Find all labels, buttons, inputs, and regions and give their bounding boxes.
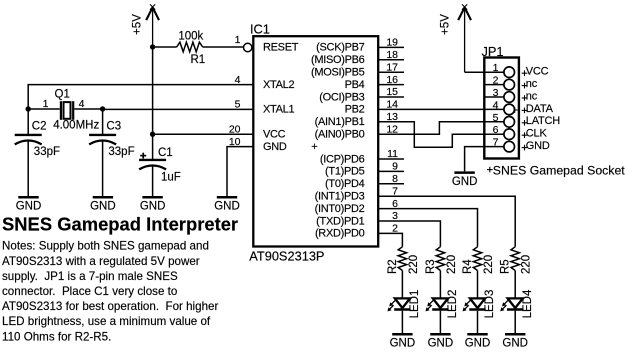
wire IC1 PB2 (pin 14) to JP1 pin 4 DATA bbox=[378, 108, 504, 110]
IC1 pin 6 (INT0)PD2 label bbox=[315, 198, 399, 215]
capacitor C3 33pF bbox=[89, 109, 135, 158]
svg-text:connector. Place C1 very clos: connector. Place C1 very close to bbox=[2, 285, 177, 298]
ground under LED4 bbox=[502, 334, 528, 349]
wire +5V to JP1 pin 1 VCC bbox=[465, 71, 504, 73]
svg-text:33pF: 33pF bbox=[108, 146, 134, 158]
svg-text:Notes: Supply both SNES gamepa: Notes: Supply both SNES gamepad and bbox=[2, 240, 209, 253]
ground under C2 bbox=[16, 197, 42, 212]
resistor R2 220 bbox=[387, 247, 420, 274]
IC1 pin 1 RESET label bbox=[235, 34, 299, 54]
crystal Q1 4.00MHz bbox=[43, 88, 100, 131]
svg-text:VCC: VCC bbox=[263, 129, 286, 141]
svg-text:(MISO)PB6: (MISO)PB6 bbox=[311, 54, 365, 66]
IC1 pin 15 (OCI)PB3 label bbox=[319, 86, 398, 103]
wire VCC node down to C1 bbox=[152, 134, 154, 159]
LED LED3 bbox=[463, 290, 497, 319]
svg-text:GND: GND bbox=[452, 176, 478, 188]
svg-text:GND: GND bbox=[214, 201, 240, 213]
svg-text:(T0)PD4: (T0)PD4 bbox=[325, 178, 365, 190]
JP1 note: SNES Gamepad Socket bbox=[487, 163, 625, 177]
svg-text:(AIN0)PB0: (AIN0)PB0 bbox=[315, 129, 365, 141]
JP1 pin 5 (LATCH) bbox=[493, 112, 561, 127]
svg-text:(RXD)PD0: (RXD)PD0 bbox=[315, 228, 365, 240]
IC1 pin 19 stub bbox=[378, 46, 404, 48]
wire IC1 PB0 (pin 12) to JP1 pin 5 LATCH bbox=[378, 122, 504, 134]
JP1 pin 4 connection cross bbox=[512, 109, 518, 111]
svg-text:4: 4 bbox=[235, 74, 241, 86]
ground under LED1 bbox=[390, 334, 416, 349]
svg-text:(T1)PD5: (T1)PD5 bbox=[325, 166, 365, 178]
svg-text:(INT0)PD2: (INT0)PD2 bbox=[315, 203, 365, 215]
IC1 pin 9 (T1)PD5 label bbox=[325, 161, 398, 178]
svg-text:7: 7 bbox=[493, 137, 499, 149]
svg-text:LED3: LED3 bbox=[484, 290, 496, 319]
svg-text:1uF: 1uF bbox=[161, 171, 181, 183]
wire LED3 to ground bbox=[477, 311, 479, 333]
svg-text:(SCK)PB7: (SCK)PB7 bbox=[316, 42, 365, 54]
svg-text:(MOSI)PB5: (MOSI)PB5 bbox=[311, 67, 365, 79]
svg-text:R5: R5 bbox=[500, 259, 512, 274]
svg-text:R4: R4 bbox=[462, 259, 474, 274]
capacitor C2 33pF bbox=[15, 109, 60, 158]
svg-text:nc: nc bbox=[526, 78, 538, 90]
svg-text:220: 220 bbox=[521, 255, 533, 274]
svg-text:1: 1 bbox=[493, 62, 499, 74]
resistor R4 220 bbox=[462, 247, 495, 274]
svg-text:R2: R2 bbox=[387, 259, 399, 274]
ground under LED2 bbox=[428, 334, 454, 349]
svg-text:AT90S2313P: AT90S2313P bbox=[249, 248, 324, 263]
IC1 pin 8 stub bbox=[378, 183, 404, 185]
svg-text:(ICP)PD6: (ICP)PD6 bbox=[320, 153, 365, 165]
IC1 pin 18 (MISO)PB6 label bbox=[311, 49, 398, 66]
svg-text:(OCI)PB3: (OCI)PB3 bbox=[319, 91, 364, 103]
IC1 RESET inversion bubble (pin 1) bbox=[244, 43, 252, 51]
IC1 pin 4 XTAL2 label bbox=[235, 74, 295, 91]
JP1 pin 7 (GND) bbox=[493, 137, 550, 152]
svg-text:4: 4 bbox=[79, 98, 85, 110]
IC1 pin 8 (T0)PD4 label bbox=[325, 173, 398, 190]
wire VCC node to IC1 pin 20 bbox=[153, 133, 254, 135]
JP1 pin 2 (nc) bbox=[493, 75, 538, 90]
IC1 pin 2 (RXD)PD0 label bbox=[315, 223, 398, 240]
svg-text:VCC: VCC bbox=[526, 66, 549, 78]
wire R2 to LED1 bbox=[401, 271, 403, 298]
svg-text:AT90S2313 with a regulated 5V: AT90S2313 with a regulated 5V power bbox=[2, 255, 200, 268]
wire R1 to IC1 RESET bubble bbox=[203, 46, 244, 48]
wire node A to crystal Q1 bbox=[28, 108, 60, 110]
wire LED1 to ground bbox=[401, 311, 403, 333]
IC1 pin 5 XTAL1 label bbox=[235, 99, 295, 116]
svg-text:LED1: LED1 bbox=[409, 290, 421, 319]
svg-text:Q1: Q1 bbox=[55, 88, 70, 100]
svg-text:GND: GND bbox=[390, 338, 416, 350]
svg-text:GND: GND bbox=[140, 201, 166, 213]
IC1 pin 18 stub bbox=[378, 59, 404, 61]
svg-text:CLK: CLK bbox=[526, 128, 548, 140]
LED LED4 bbox=[500, 289, 534, 318]
wire IC1 pin 7 to resistor column x=515.2 bbox=[378, 196, 515, 247]
svg-text:GND: GND bbox=[428, 338, 454, 350]
svg-text:PB2: PB2 bbox=[345, 104, 365, 116]
wire +5V to resistor R1 bbox=[153, 46, 177, 48]
svg-text:6: 6 bbox=[493, 124, 499, 136]
IC1 pin 13 (AIN1)PB1 label bbox=[315, 111, 399, 128]
svg-text:C3: C3 bbox=[106, 120, 121, 132]
svg-text:JP1: JP1 bbox=[482, 44, 504, 59]
LED LED1 bbox=[387, 290, 421, 319]
svg-text:4: 4 bbox=[493, 99, 499, 111]
svg-text:supply. JP1 is a 7-pin male S: supply. JP1 is a 7-pin male SNES bbox=[2, 270, 178, 283]
svg-text:GND: GND bbox=[465, 338, 491, 350]
JP1 pin 1 (VCC) bbox=[493, 62, 549, 77]
IC1 pin 19 (SCK)PB7 label bbox=[316, 37, 398, 54]
power flag +5V (JP1) bbox=[439, 4, 471, 72]
junction +5V rail / VCC / C1 bbox=[150, 132, 155, 137]
JP1 pin 4 (DATA) bbox=[493, 99, 554, 114]
svg-text:C2: C2 bbox=[32, 120, 47, 132]
IC1 pin 11 (ICP)PD6 label bbox=[320, 148, 398, 165]
IC1 pin 11 stub bbox=[378, 158, 404, 160]
svg-text:nc: nc bbox=[526, 90, 538, 102]
IC1 pin 15 stub bbox=[378, 96, 404, 98]
svg-text:C1: C1 bbox=[158, 147, 173, 159]
svg-text:GND: GND bbox=[263, 141, 287, 153]
JP1 pin 6 (CLK) bbox=[493, 124, 548, 139]
svg-text:GND: GND bbox=[526, 140, 550, 152]
svg-text:220: 220 bbox=[483, 255, 495, 274]
svg-text:220: 220 bbox=[446, 255, 458, 274]
svg-text:R3: R3 bbox=[425, 259, 437, 274]
svg-text:33pF: 33pF bbox=[34, 146, 60, 158]
ground under LED3 bbox=[465, 334, 491, 349]
LED LED2 bbox=[425, 290, 459, 319]
svg-text:+5V: +5V bbox=[439, 14, 452, 35]
IC1 pin 14 PB2 label bbox=[345, 99, 399, 116]
resistor R3 220 bbox=[425, 247, 458, 274]
svg-text:LED2: LED2 bbox=[447, 290, 459, 319]
svg-text:GND: GND bbox=[16, 201, 42, 213]
JP1 pin 2 internal stub bbox=[484, 84, 504, 86]
connector JP1 box bbox=[484, 58, 519, 159]
svg-text:4.00MHz: 4.00MHz bbox=[53, 120, 99, 132]
svg-text:20: 20 bbox=[229, 123, 241, 135]
IC1 pin 3 (TXD)PD1 label bbox=[316, 210, 398, 227]
svg-text:SNES Gamepad Interpreter: SNES Gamepad Interpreter bbox=[2, 214, 238, 235]
svg-text:R1: R1 bbox=[190, 54, 205, 66]
JP1 pin 3 (nc) bbox=[493, 87, 538, 102]
ground under C1 bbox=[140, 197, 166, 212]
svg-text:IC1: IC1 bbox=[250, 21, 270, 36]
svg-text:+: + bbox=[311, 141, 317, 153]
wire C1 to ground bbox=[152, 166, 154, 197]
wire C3 to ground bbox=[102, 141, 104, 197]
wire R3 to LED2 bbox=[439, 271, 441, 298]
ground under JP1 pin 7 bbox=[452, 173, 478, 188]
svg-text:LED4: LED4 bbox=[522, 289, 534, 318]
svg-text:100k: 100k bbox=[178, 31, 203, 43]
junction node A (XTAL2/C2/Q1) bbox=[26, 106, 31, 111]
microcontroller IC1 AT90S2313P box bbox=[253, 36, 378, 246]
wire LED4 to ground bbox=[514, 311, 516, 333]
resistor R5 220 bbox=[500, 247, 533, 274]
IC1 pin 16 PB4 label bbox=[345, 74, 399, 91]
svg-text:+5V: +5V bbox=[131, 14, 144, 35]
svg-text:RESET: RESET bbox=[263, 42, 299, 54]
svg-text:LED brightness, use a minimum: LED brightness, use a minimum value of bbox=[2, 315, 211, 328]
svg-text:(TXD)PD1: (TXD)PD1 bbox=[316, 215, 365, 227]
wire +5V rail down to VCC node bbox=[152, 47, 154, 134]
svg-text:(AIN1)PB1: (AIN1)PB1 bbox=[315, 116, 365, 128]
wire IC1 pin 6 to resistor column x=477.5 bbox=[378, 209, 477, 247]
resistor R1 100k bbox=[177, 31, 205, 66]
svg-text:220: 220 bbox=[408, 255, 420, 274]
svg-text:SNES Gamepad Socket: SNES Gamepad Socket bbox=[493, 163, 625, 177]
svg-text:PB4: PB4 bbox=[345, 79, 365, 91]
ground under C3 bbox=[90, 197, 116, 212]
IC1 pin 12 (AIN0)PB0 label bbox=[315, 123, 399, 140]
wire R5 to LED4 bbox=[514, 271, 516, 298]
junction node B (XTAL1/C3/Q1) bbox=[100, 106, 105, 111]
svg-text:(INT1)PD3: (INT1)PD3 bbox=[315, 191, 365, 203]
svg-text:1: 1 bbox=[235, 34, 241, 46]
svg-text:5: 5 bbox=[493, 112, 499, 124]
IC1 pin 16 stub bbox=[378, 84, 404, 86]
wire IC1 PB1 (pin 13) to JP1 pin 6 CLK bbox=[378, 122, 504, 147]
svg-text:GND: GND bbox=[90, 201, 116, 213]
wire IC1 XTAL2 (pin 4) to crystal node A bbox=[28, 85, 253, 109]
svg-text:1: 1 bbox=[43, 98, 49, 110]
JP1 pin 3 internal stub bbox=[484, 96, 504, 98]
wire IC1 GND (pin 10) to ground bbox=[227, 147, 253, 197]
svg-text:110 Ohms for R2-R5.: 110 Ohms for R2-R5. bbox=[2, 330, 111, 343]
capacitor C1 1uF (polarized) bbox=[139, 147, 181, 183]
svg-text:2: 2 bbox=[493, 75, 499, 87]
power flag +5V (left rail) bbox=[131, 4, 159, 47]
IC1 pin 10 GND label bbox=[229, 136, 287, 153]
svg-text:AT90S2313 for best operation.: AT90S2313 for best operation. For higher bbox=[2, 300, 218, 313]
wire R4 to LED3 bbox=[477, 271, 479, 298]
IC1 pin 7 (INT1)PD3 label bbox=[315, 185, 399, 202]
junction +5V / R1 bbox=[150, 44, 155, 49]
svg-text:GND: GND bbox=[502, 338, 528, 350]
wire IC1 pin 2 to resistor column x=402.4 bbox=[378, 233, 402, 246]
IC1 pin 17 stub bbox=[378, 71, 404, 73]
svg-text:XTAL2: XTAL2 bbox=[263, 79, 294, 91]
wire LED2 to ground bbox=[439, 311, 441, 333]
IC1 pin 20 VCC label bbox=[229, 123, 286, 140]
svg-text:LATCH: LATCH bbox=[526, 115, 561, 127]
svg-text:DATA: DATA bbox=[526, 103, 554, 115]
svg-text:3: 3 bbox=[493, 87, 499, 99]
notes text block bbox=[2, 240, 218, 344]
wire crystal Q1 to node B bbox=[74, 108, 102, 110]
svg-text:XTAL1: XTAL1 bbox=[263, 104, 294, 116]
wire IC1 XTAL1 (pin 5) to crystal node B bbox=[103, 108, 254, 110]
IC1 pin 9 stub bbox=[378, 170, 404, 172]
ground under IC1 pin 10 bbox=[214, 197, 240, 212]
wire JP1 pin 7 to ground bbox=[465, 147, 504, 172]
svg-text:5: 5 bbox=[235, 99, 241, 111]
svg-text:10: 10 bbox=[229, 136, 241, 148]
wire IC1 pin 3 to resistor column x=440.4 bbox=[378, 221, 440, 247]
IC1 pin 17 (MOSI)PB5 label bbox=[311, 61, 398, 78]
wire C2 to ground bbox=[27, 141, 29, 197]
